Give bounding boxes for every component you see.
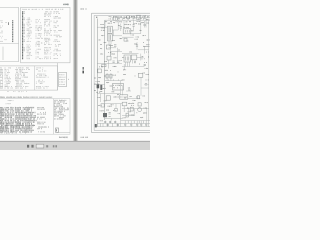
resistor R5 — [107, 56, 111, 60]
label m1 — [112, 53, 115, 54]
wire drop x124 — [123, 20, 125, 28]
label above T1 — [108, 23, 111, 24]
capacitor C8 — [145, 84, 147, 85]
wire y80.6 — [105, 80, 122, 82]
label s20 — [130, 52, 132, 53]
wire x134.2 link — [133, 109, 135, 116]
capacitor row bottom right — [124, 121, 147, 127]
label s29 — [118, 94, 119, 95]
label mid left — [100, 53, 103, 54]
ic U3 — [131, 55, 137, 60]
label s28 — [104, 100, 106, 101]
label r2 — [145, 68, 148, 69]
label v8 — [140, 18, 141, 19]
label b6 — [136, 111, 138, 114]
label v7 — [147, 15, 150, 18]
wire T1 mid link — [113, 30, 115, 36]
resistor R4 — [106, 45, 112, 49]
label s11 — [147, 40, 149, 41]
label r1 — [147, 51, 149, 54]
label s18 — [147, 56, 149, 57]
ic U5 with label — [113, 84, 124, 91]
wire y108.6 — [122, 108, 149, 110]
wire y98.6 — [128, 98, 140, 100]
label b1 — [99, 105, 102, 106]
node label at bus top — [96, 17, 98, 18]
label v4 — [125, 17, 126, 18]
figure label Fig rotated — [82, 67, 84, 70]
resistor R3 — [124, 38, 127, 41]
speck pocket c — [145, 62, 147, 63]
wire y115.4 — [122, 114, 135, 116]
label right bottom — [144, 108, 146, 109]
wire y49.8 right — [138, 49, 149, 51]
parts table C rows — [23, 9, 63, 60]
wire y93.6 — [97, 93, 120, 95]
label under transformer — [97, 92, 100, 93]
T1 pin drops — [109, 41, 111, 45]
label top right a — [131, 16, 134, 17]
label s23 — [146, 79, 148, 82]
wire y57.3 — [137, 56, 144, 58]
wire x117.5 drop — [117, 48, 119, 64]
wire y37 — [122, 36, 134, 38]
capacitor C6 — [144, 64, 146, 65]
capacitor C1 — [120, 24, 122, 32]
bottom viewer band — [0, 141, 150, 150]
label s37 — [141, 117, 143, 118]
label s8 — [127, 40, 128, 43]
label s3 — [128, 24, 130, 25]
capacitor C5 marks — [113, 61, 120, 62]
resistor R12 — [101, 104, 123, 107]
wire x116 lower link — [115, 104, 117, 109]
label dots mid — [135, 37, 138, 40]
label above IC U4 — [100, 110, 103, 111]
label v1 — [109, 15, 110, 18]
resistor R13 — [122, 102, 127, 106]
wire y53.6 — [122, 53, 139, 55]
schematic inner frame — [94, 16, 152, 131]
label left of T1 — [101, 27, 104, 31]
label mid drop — [125, 24, 127, 25]
label below T1 — [104, 40, 115, 43]
label s35 — [107, 110, 109, 111]
wire bottom bus third — [121, 120, 152, 122]
resistor R15 — [130, 107, 133, 111]
wire y118.4 — [105, 117, 123, 119]
wire top horizontal bus — [112, 17, 152, 19]
speck pocket d — [143, 72, 144, 73]
wire y91 stub — [126, 90, 131, 92]
left page header text — [64, 4, 67, 6]
label m4 — [123, 57, 124, 58]
wire x137 drop upper mid — [136, 42, 138, 50]
label b2 — [108, 106, 111, 107]
wire tick x124.2 — [123, 106, 125, 112]
wire second vertical bus — [104, 20, 106, 120]
pin drops under U3 — [133, 60, 135, 64]
label r5 — [143, 95, 144, 96]
label bottom mid — [129, 103, 134, 104]
diode D2 pair — [106, 73, 112, 80]
label near R9 — [114, 96, 118, 97]
page background — [0, 0, 150, 150]
middle table F rows — [0, 67, 48, 88]
bottom ladder extra rungs right — [128, 121, 144, 124]
transistor Q1 — [138, 108, 142, 112]
label s2 — [124, 17, 125, 20]
label near R16 — [130, 115, 133, 116]
marks right of U4 — [109, 113, 111, 117]
label b8 — [123, 117, 125, 118]
label s5 — [147, 19, 149, 20]
label s10 — [143, 35, 145, 36]
label s34 — [118, 113, 119, 114]
speck pocket b — [101, 48, 102, 49]
capacitor C4 — [114, 45, 116, 46]
parts table C outline — [21, 7, 70, 62]
capacitor C2 — [133, 25, 135, 30]
label s6 — [131, 35, 134, 36]
label b4 — [100, 120, 102, 121]
parts table A outline — [0, 7, 19, 61]
label s36 — [128, 107, 129, 108]
wire x111.5 bottom drop — [111, 118, 113, 120]
label t5 — [132, 30, 134, 31]
label m6 — [100, 66, 103, 67]
label b3 — [114, 110, 116, 111]
wire x146.8 drop bottom — [146, 109, 148, 121]
label s17 — [144, 46, 146, 47]
label frame-edge a — [95, 78, 96, 79]
capacitor C7 — [136, 45, 138, 46]
wire x108 drop — [107, 60, 109, 69]
label t4 — [137, 21, 139, 22]
label b7 — [144, 112, 147, 113]
label u2 — [143, 42, 145, 43]
component on right bus upper — [146, 45, 150, 47]
right page footer text — [81, 137, 84, 138]
label v5 — [133, 18, 135, 19]
wire x110 drop — [110, 44, 112, 56]
ic U2 — [124, 55, 130, 62]
resistor R7 — [98, 69, 102, 73]
wire T1 lower — [112, 35, 122, 37]
wire bottom bus — [96, 126, 153, 128]
middle table F outline — [0, 66, 58, 90]
diode D1 box — [137, 15, 141, 19]
wire x122.6 faint drop — [122, 85, 124, 95]
label m8 — [105, 76, 106, 77]
wire right vertical bus — [148, 20, 150, 126]
label lower left cluster — [124, 69, 126, 70]
resistor R11 — [137, 96, 140, 99]
wire from T1 — [112, 29, 118, 31]
label v6 — [144, 14, 145, 17]
resistor R9 — [106, 96, 110, 100]
wire x100 drop — [99, 94, 101, 102]
label s24 — [134, 75, 136, 78]
transformer T1 primary — [108, 26, 113, 33]
label s13 — [101, 43, 102, 46]
resistor R14 — [138, 103, 141, 106]
stray note line — [7, 91, 26, 92]
wire x120.6 drop — [120, 104, 122, 127]
ic U1 — [123, 27, 131, 34]
label s12 — [102, 35, 104, 36]
wire bottom bus second — [97, 122, 152, 124]
label sparse right mid — [128, 87, 129, 88]
label right of U3 — [142, 56, 144, 59]
label s31 — [125, 98, 126, 99]
label s16 — [120, 60, 121, 61]
ticks on y80.6 — [109, 79, 119, 80]
label right top cluster — [146, 73, 148, 76]
bottom table H left rows — [0, 100, 48, 134]
schematic outer frame — [92, 13, 152, 132]
relay K1 box — [120, 95, 128, 99]
resistor R16 — [126, 113, 128, 117]
label t1 — [109, 18, 110, 19]
label frame-edge c — [94, 90, 97, 91]
label s19 — [138, 64, 140, 65]
wire U1 to drop — [131, 33, 141, 35]
label m10 — [107, 82, 109, 83]
wire x110.3 to R5 — [109, 52, 111, 57]
wire drop x146 — [145, 18, 147, 28]
viewer toolbar marks — [27, 145, 29, 148]
label s15 — [119, 49, 120, 52]
capacitor C3 — [144, 21, 146, 28]
label s27 — [98, 96, 100, 99]
wire y47.8 — [108, 47, 116, 49]
bottom table H header row — [0, 97, 52, 98]
ic U4 dark — [103, 113, 107, 117]
wire x120 drop — [119, 81, 121, 95]
label m5 — [134, 61, 135, 62]
label near R17 — [111, 104, 113, 105]
wire into T1 top — [104, 20, 106, 27]
label v3 — [119, 18, 120, 19]
label s4 — [139, 23, 141, 24]
label b5 — [128, 110, 130, 113]
wire y63.6 — [97, 63, 122, 65]
wire to T1 — [97, 26, 107, 28]
label m13 — [112, 91, 114, 92]
label m9 — [113, 75, 115, 76]
wire left vertical bus — [96, 19, 98, 127]
component top far right — [143, 17, 145, 18]
label r3 — [124, 74, 126, 75]
label s30 — [133, 100, 135, 101]
label near R7 — [105, 70, 110, 71]
transformer T1 secondary — [108, 34, 113, 41]
speck pocket a — [99, 39, 100, 40]
label s25 — [99, 77, 101, 78]
label m12 — [100, 91, 102, 92]
wire x144.6 drop upper — [144, 46, 146, 53]
label m3 — [105, 61, 107, 62]
resistor R17 — [115, 109, 118, 112]
label s9 — [120, 38, 122, 39]
label m2 — [114, 57, 116, 58]
label s32 — [145, 102, 147, 103]
ground mark dark — [95, 124, 97, 127]
resistor R1 top cluster — [113, 16, 118, 30]
label frame-edge b — [95, 83, 96, 86]
label top mid — [120, 21, 122, 22]
label t6 — [101, 23, 104, 26]
label s22 — [122, 79, 124, 80]
label t3 — [126, 21, 127, 22]
bottom ladder extra rungs left — [101, 123, 118, 126]
capacitor C9 bottom — [107, 124, 109, 125]
wire y84.8 right段 — [144, 84, 149, 86]
right page header text — [81, 8, 83, 10]
label m7 — [113, 66, 116, 67]
label v2 — [114, 22, 115, 23]
wire y88 right — [141, 87, 149, 89]
bottom table H outline — [0, 99, 70, 135]
wire x141 long drop — [140, 81, 142, 96]
wire drop x133.6 — [133, 20, 135, 24]
label u1 — [135, 43, 137, 44]
bottom table H right rows — [55, 100, 70, 133]
side table G and note box — [58, 63, 69, 90]
label r4 — [130, 96, 131, 97]
capacitor C10 bottom — [117, 124, 119, 125]
wire drop x140.8 — [140, 20, 142, 33]
pin drops under U2 — [126, 62, 130, 67]
label s7 — [140, 30, 141, 31]
label s26 — [103, 88, 105, 89]
left page footer text — [60, 137, 63, 139]
speck pocket e — [129, 90, 130, 91]
label s1 — [119, 25, 120, 26]
label m11 — [110, 86, 112, 87]
wire top bus second — [105, 19, 152, 21]
connector pin row top — [111, 16, 147, 20]
resistor R6 — [102, 64, 106, 67]
wire y66.5 — [122, 66, 145, 68]
wire x128.3 link — [127, 109, 129, 116]
label right drop — [147, 23, 148, 24]
wire tick x124 — [123, 64, 125, 70]
label s33 — [132, 105, 134, 106]
label row under top bus — [106, 21, 144, 24]
wire x140.8 drop 2 — [140, 54, 142, 61]
diode D3 — [138, 73, 143, 80]
resistor R2 — [127, 16, 130, 20]
label t2 — [120, 16, 121, 17]
parts table A rows — [0, 20, 12, 42]
schematic interior wash — [94, 16, 152, 130]
transformer T2 winding dark — [94, 81, 104, 90]
label s14 — [109, 52, 111, 53]
wire y51.5 link — [110, 51, 122, 53]
label s21 — [117, 71, 119, 74]
capacitor row bottom left — [104, 121, 116, 124]
